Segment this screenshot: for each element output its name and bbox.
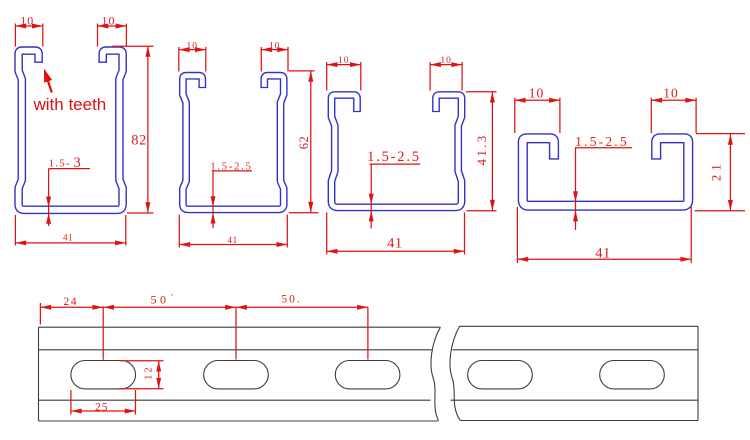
- svg-text:10: 10: [338, 56, 350, 66]
- svg-text:10: 10: [187, 41, 199, 51]
- svg-text:10: 10: [663, 86, 679, 101]
- svg-text:10: 10: [102, 13, 116, 27]
- svg-text:82: 82: [131, 133, 147, 149]
- svg-text:25: 25: [95, 401, 109, 413]
- svg-text:41: 41: [387, 236, 403, 252]
- svg-text:10: 10: [440, 56, 452, 66]
- svg-text:ʼ: ʼ: [171, 293, 174, 302]
- svg-text:1.5-2.5: 1.5-2.5: [210, 161, 252, 172]
- svg-text:12: 12: [144, 365, 155, 380]
- svg-text:21: 21: [709, 160, 724, 181]
- svg-text:50.: 50.: [281, 293, 301, 305]
- svg-text:41: 41: [595, 246, 611, 262]
- svg-text:1.5-2.5: 1.5-2.5: [367, 149, 421, 165]
- svg-text:10: 10: [529, 86, 545, 101]
- svg-text:62: 62: [297, 136, 311, 150]
- svg-text:24: 24: [63, 296, 78, 308]
- svg-text:41: 41: [227, 235, 237, 245]
- svg-text:1.5-2.5: 1.5-2.5: [575, 134, 629, 149]
- svg-text:3: 3: [74, 155, 81, 171]
- svg-text:10: 10: [20, 13, 34, 27]
- svg-text:10: 10: [269, 41, 281, 51]
- svg-text:with teeth: with teeth: [33, 95, 107, 114]
- svg-text:1.5-: 1.5-: [49, 158, 71, 170]
- svg-text:50: 50: [151, 292, 170, 306]
- svg-text:41.3: 41.3: [474, 134, 489, 166]
- svg-text:41: 41: [63, 233, 73, 243]
